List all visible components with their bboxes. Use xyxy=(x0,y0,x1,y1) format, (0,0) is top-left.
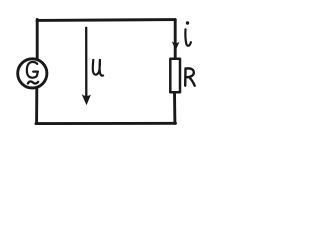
current label i dot xyxy=(186,21,189,24)
wire left upper segment xyxy=(36,20,39,60)
wire bottom (node from generator to resistor) xyxy=(36,122,176,125)
generator letter G xyxy=(27,62,38,78)
generator G xyxy=(18,59,47,88)
voltage label u xyxy=(93,60,103,76)
voltage arrow u head xyxy=(82,94,92,105)
wire right upper segment (with current arrow) xyxy=(174,20,177,58)
current label i body xyxy=(185,29,191,46)
wire left lower segment xyxy=(35,88,38,123)
resistor letter R xyxy=(185,68,195,85)
wire right lower segment xyxy=(173,93,176,124)
resistor R body xyxy=(170,59,180,93)
generator AC tilde ~ xyxy=(28,81,38,83)
current arrow i head on right wire xyxy=(172,41,180,50)
voltage arrow u shaft xyxy=(85,28,87,99)
wire top (node from generator to resistor) xyxy=(37,18,175,22)
